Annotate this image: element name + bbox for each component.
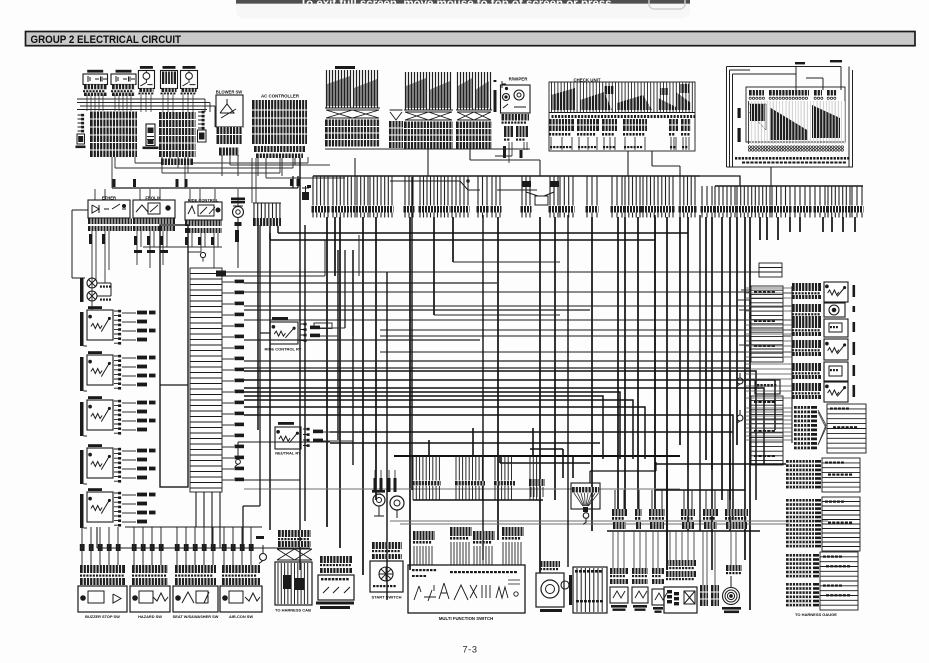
bus tap group T7 — [452, 176, 468, 206]
buzzer concentric — [723, 588, 740, 605]
wire long horizontal y330 — [380, 330, 791, 352]
bus tap group T15 — [625, 176, 640, 206]
svg-text:TO HARNESS GAUGE: TO HARNESS GAUGE — [795, 612, 837, 617]
bus tap group T23 — [815, 186, 825, 206]
connector cluster BR1 — [612, 509, 627, 516]
wire long horizontal y433 — [330, 432, 733, 443]
connector block CN-A — [90, 112, 137, 158]
switch SAFETY TRAVEL SWITCH — [320, 556, 352, 563]
breaker symbol near cab — [260, 554, 267, 561]
fuse box FUSE BOX — [727, 67, 853, 168]
bus tap group T16 — [643, 176, 673, 206]
connector CN-R1 — [198, 112, 204, 128]
wire left bus main y188 — [112, 176, 298, 188]
svg-text:AIR-CON SW: AIR-CON SW — [229, 614, 253, 619]
horn HORN — [231, 198, 245, 201]
bus tap group T25 — [852, 186, 862, 206]
bus tap group T6 — [420, 176, 448, 206]
bus duct vertical pair — [160, 225, 188, 487]
connector cluster BR5 — [703, 509, 718, 516]
bus tap group T14 — [612, 176, 622, 206]
connector CN-9 harness block — [786, 583, 812, 586]
connector CR-2 — [755, 380, 780, 394]
connector cluster BR4 — [681, 509, 695, 516]
relay HEAD RY — [116, 70, 132, 73]
wire bundle switches to CN-B — [141, 95, 193, 113]
connector cluster BR2 — [635, 509, 642, 516]
switch WIPER SW2 — [132, 544, 137, 551]
terminal strip ladder TS4 — [751, 396, 783, 465]
relay bottom KR2 — [632, 568, 648, 574]
diode module D1 — [146, 124, 155, 146]
resistor block RESISTOR — [163, 66, 176, 69]
bus rail bottom right — [607, 530, 760, 532]
bus tap group T10 — [522, 176, 530, 206]
connector CN-L1 fuse F1 — [78, 115, 84, 131]
connector pins above gauges — [374, 478, 377, 492]
connector CN-6 harness block — [786, 460, 814, 463]
bus tap group T19 — [715, 186, 735, 206]
wire left bus staircase — [115, 157, 308, 173]
battery symbol B1 — [302, 192, 309, 200]
breaker symbol BR-B — [737, 415, 743, 421]
wire verticals center mesh — [300, 158, 700, 600]
bus tap group T18 — [702, 186, 712, 206]
relay NEUTRAL RY — [278, 422, 294, 425]
connector fan-out CN-20 — [571, 483, 600, 509]
switch AIR-CON SW — [222, 544, 227, 551]
wire drops ETHER — [92, 231, 109, 310]
wire drops combs to bus rail — [355, 149, 771, 187]
bus tap group T22 — [795, 186, 810, 206]
resistor R-RC — [314, 323, 332, 329]
svg-text:HAZARD SW: HAZARD SW — [138, 614, 162, 619]
wire AC to CN-14 — [252, 158, 256, 203]
bus tap group T8 — [478, 176, 487, 206]
wire long gray y521 — [244, 489, 828, 524]
bus tap group T3 — [357, 176, 368, 206]
wire bundle main harness — [244, 371, 775, 520]
bus rail lower second — [413, 499, 543, 501]
bus tap group T9 — [492, 176, 500, 206]
module FLASHER UNIT — [792, 363, 821, 371]
bus tap group T5 — [405, 176, 413, 206]
relay bottom KR1 — [610, 568, 628, 574]
wire ride control to trunk — [243, 225, 353, 550]
bus rail lower — [394, 455, 680, 457]
wire stubs rail to bottom relays — [613, 531, 736, 585]
svg-text:GROUP 2 ELECTRICAL CIRCUIT: GROUP 2 ELECTRICAL CIRCUIT — [31, 34, 182, 46]
wire drops RIDE CONTROL — [143, 233, 222, 268]
relay bottom KR3 — [652, 568, 664, 574]
connector clusters above MFS — [413, 531, 435, 540]
switch START SWITCH — [372, 542, 402, 549]
breaker symbol BR-A — [737, 378, 743, 384]
bus tap group T21 — [772, 186, 790, 206]
terminal strip ladder TS3 — [751, 286, 783, 362]
relay RY-5 — [80, 494, 84, 528]
bus tap group T11 — [550, 176, 558, 206]
relay RY-3 — [80, 402, 84, 436]
fullscreen toast light body with Esc button — [236, 4, 690, 19]
terminal strip ladder TS1 — [190, 268, 222, 492]
wire left edge ETHER feed — [72, 210, 88, 278]
terminal stub wires TS1 — [222, 282, 234, 480]
connector cluster BL0 — [529, 479, 545, 486]
relay RIDE CONTROL RY — [272, 317, 288, 320]
relay RY-1 — [80, 312, 84, 346]
wire under combs y149 — [325, 148, 530, 150]
wire long horizontal y460 — [238, 442, 330, 459]
section header bar GROUP 2 ELECTRICAL CIRCUIT — [26, 32, 916, 46]
wire long horizontal y272 — [224, 272, 791, 320]
wire stubs bus to mid row boxes — [95, 189, 238, 206]
svg-text:MULTI FUNCTION SWITCH: MULTI FUNCTION SWITCH — [439, 616, 493, 621]
switch MULTI FUNCTION SWITCH — [408, 565, 525, 613]
wire drops FROLIX — [137, 231, 167, 268]
wire jog arrow mid — [390, 181, 480, 190]
relay K5 under bus — [522, 181, 531, 187]
wire TS1 exits to right — [244, 283, 751, 368]
svg-text:START SWITCH: START SWITCH — [372, 595, 402, 600]
connector column BC1 — [700, 585, 708, 606]
bus tap group T1 — [313, 176, 328, 206]
relay LAMP RY — [87, 70, 103, 73]
switch SEAT WIPER AND WASHER SW — [175, 544, 180, 551]
switch BUZZER STOP SW — [80, 544, 85, 551]
wire rail above bottom-left switches — [97, 492, 310, 548]
svg-text:SEAT W/S&WASHER SW: SEAT W/S&WASHER SW — [173, 614, 219, 619]
wire trunk drops from bus — [327, 217, 855, 610]
svg-text:AC CONTROLLER: AC CONTROLLER — [261, 94, 300, 99]
wire thick right y233 — [270, 226, 688, 240]
switch LIGHT SW — [140, 66, 153, 69]
connector column BC2 — [711, 585, 719, 606]
wire crossbars top-left — [77, 99, 215, 127]
connector block CN-13 — [458, 72, 491, 110]
connector CN-14 — [254, 203, 280, 218]
svg-text:R/WIPER: R/WIPER — [509, 76, 529, 81]
svg-text:TO HARNESS CAB: TO HARNESS CAB — [275, 608, 311, 613]
wire vertical x359 — [225, 235, 560, 315]
svg-text:NEUTRAL RY: NEUTRAL RY — [275, 451, 301, 456]
terminal strip ladder TS2 — [759, 263, 782, 277]
diode pair D2 D3 — [87, 278, 97, 288]
gauge G2 — [390, 496, 404, 510]
connector CN-7 harness block — [786, 499, 814, 502]
bus tap group T12 — [560, 176, 573, 206]
bus tap group T4 — [370, 176, 392, 206]
relay SAFETY RY — [792, 283, 821, 291]
switch WIPER SW — [183, 66, 196, 69]
connector TO HARNESS CAB — [278, 530, 311, 537]
bus tap group T2 — [333, 176, 355, 206]
terminal strip TO HARNESS LH — [573, 567, 607, 613]
bus tap lower group L2 — [456, 456, 482, 481]
connector CN-8 harness block — [786, 554, 812, 557]
bus rail main — [313, 175, 700, 177]
diode block DX — [666, 560, 696, 566]
bus tap group T24 — [828, 186, 850, 206]
motor W/WIPER — [792, 304, 821, 312]
wire grid bottom right — [530, 440, 786, 570]
switch WIPER MODE — [792, 320, 821, 328]
relay RY-2 — [80, 357, 84, 391]
svg-text:7-3: 7-3 — [462, 645, 477, 655]
wire drops clusters to left bus — [112, 157, 188, 188]
connector block CN-10 — [327, 70, 378, 108]
wire bundle relays to CN-A — [87, 95, 131, 112]
gauge G1 — [373, 494, 385, 506]
relay WIPER RY — [792, 340, 821, 348]
svg-text:RIDE CONTROL RY: RIDE CONTROL RY — [265, 347, 302, 352]
relay RY-4 — [80, 450, 84, 484]
wire taps TS3 — [737, 290, 791, 352]
connector cluster BR6 — [725, 509, 748, 516]
connector block CN-11 — [0, 0, 1, 1]
bus tap group T13 — [587, 176, 597, 206]
meter HOUR METER — [540, 561, 560, 567]
connector cluster BR3 — [649, 509, 665, 516]
bus tap lower group L3 — [495, 456, 512, 481]
relay HORN RY — [792, 383, 821, 391]
bus tap lower group L4 — [530, 456, 540, 481]
connector block CN-B — [159, 112, 196, 157]
connector row CN-B2 — [161, 159, 193, 166]
bus tap lower group L1 — [413, 456, 439, 481]
wire drops BLOWER/AC to bus — [222, 155, 295, 178]
connector CN-5 harness block — [794, 406, 810, 409]
svg-text:BUZZER STOP SW: BUZZER STOP SW — [85, 614, 120, 619]
connector block CN-12 — [406, 72, 451, 110]
bus tap group T20 — [737, 186, 770, 206]
wire spine right x792 — [791, 286, 793, 443]
bus tap group T17 — [680, 176, 695, 206]
wire fan into right relay pins — [745, 288, 792, 440]
svg-text:BLOWER SW: BLOWER SW — [216, 90, 243, 95]
